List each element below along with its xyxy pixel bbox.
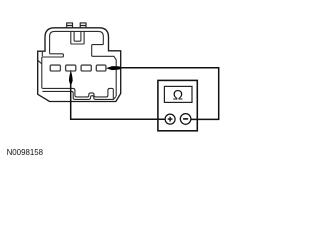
wire from pin 4 to ohmmeter negative lead (121, 68, 219, 120)
ohmmeter negative terminal (180, 114, 191, 125)
ohmmeter body (158, 80, 197, 130)
connector inner outline top (50, 31, 117, 96)
connector latch inner (74, 31, 81, 41)
test probe arrow at pin 4 (106, 66, 121, 70)
svg-text:N0098158: N0098158 (7, 148, 44, 157)
svg-text:Ω: Ω (173, 88, 183, 103)
connector latch outer (71, 31, 84, 44)
connector top tab 2 (80, 23, 86, 28)
pin cavity 2 (66, 65, 76, 71)
pin cavity 3 (81, 65, 91, 71)
ohmmeter positive terminal (165, 114, 175, 124)
connector bottom wall upper scallop (43, 88, 114, 98)
pin cavity 1 (50, 65, 60, 71)
connector bottom wall lower scallop (42, 91, 116, 99)
pin cavity 4 (96, 65, 106, 71)
connector left step stub (41, 52, 43, 56)
wire from pin 2 to ohmmeter positive lead (71, 84, 166, 120)
connector top tab 1 (67, 23, 73, 28)
connector left notch diagonal (38, 60, 42, 64)
ohmmeter display (164, 86, 192, 102)
connector left shelf detail (42, 53, 64, 89)
test probe arrow at pin 2 (69, 70, 73, 84)
connector C1 outer shell (38, 28, 121, 102)
